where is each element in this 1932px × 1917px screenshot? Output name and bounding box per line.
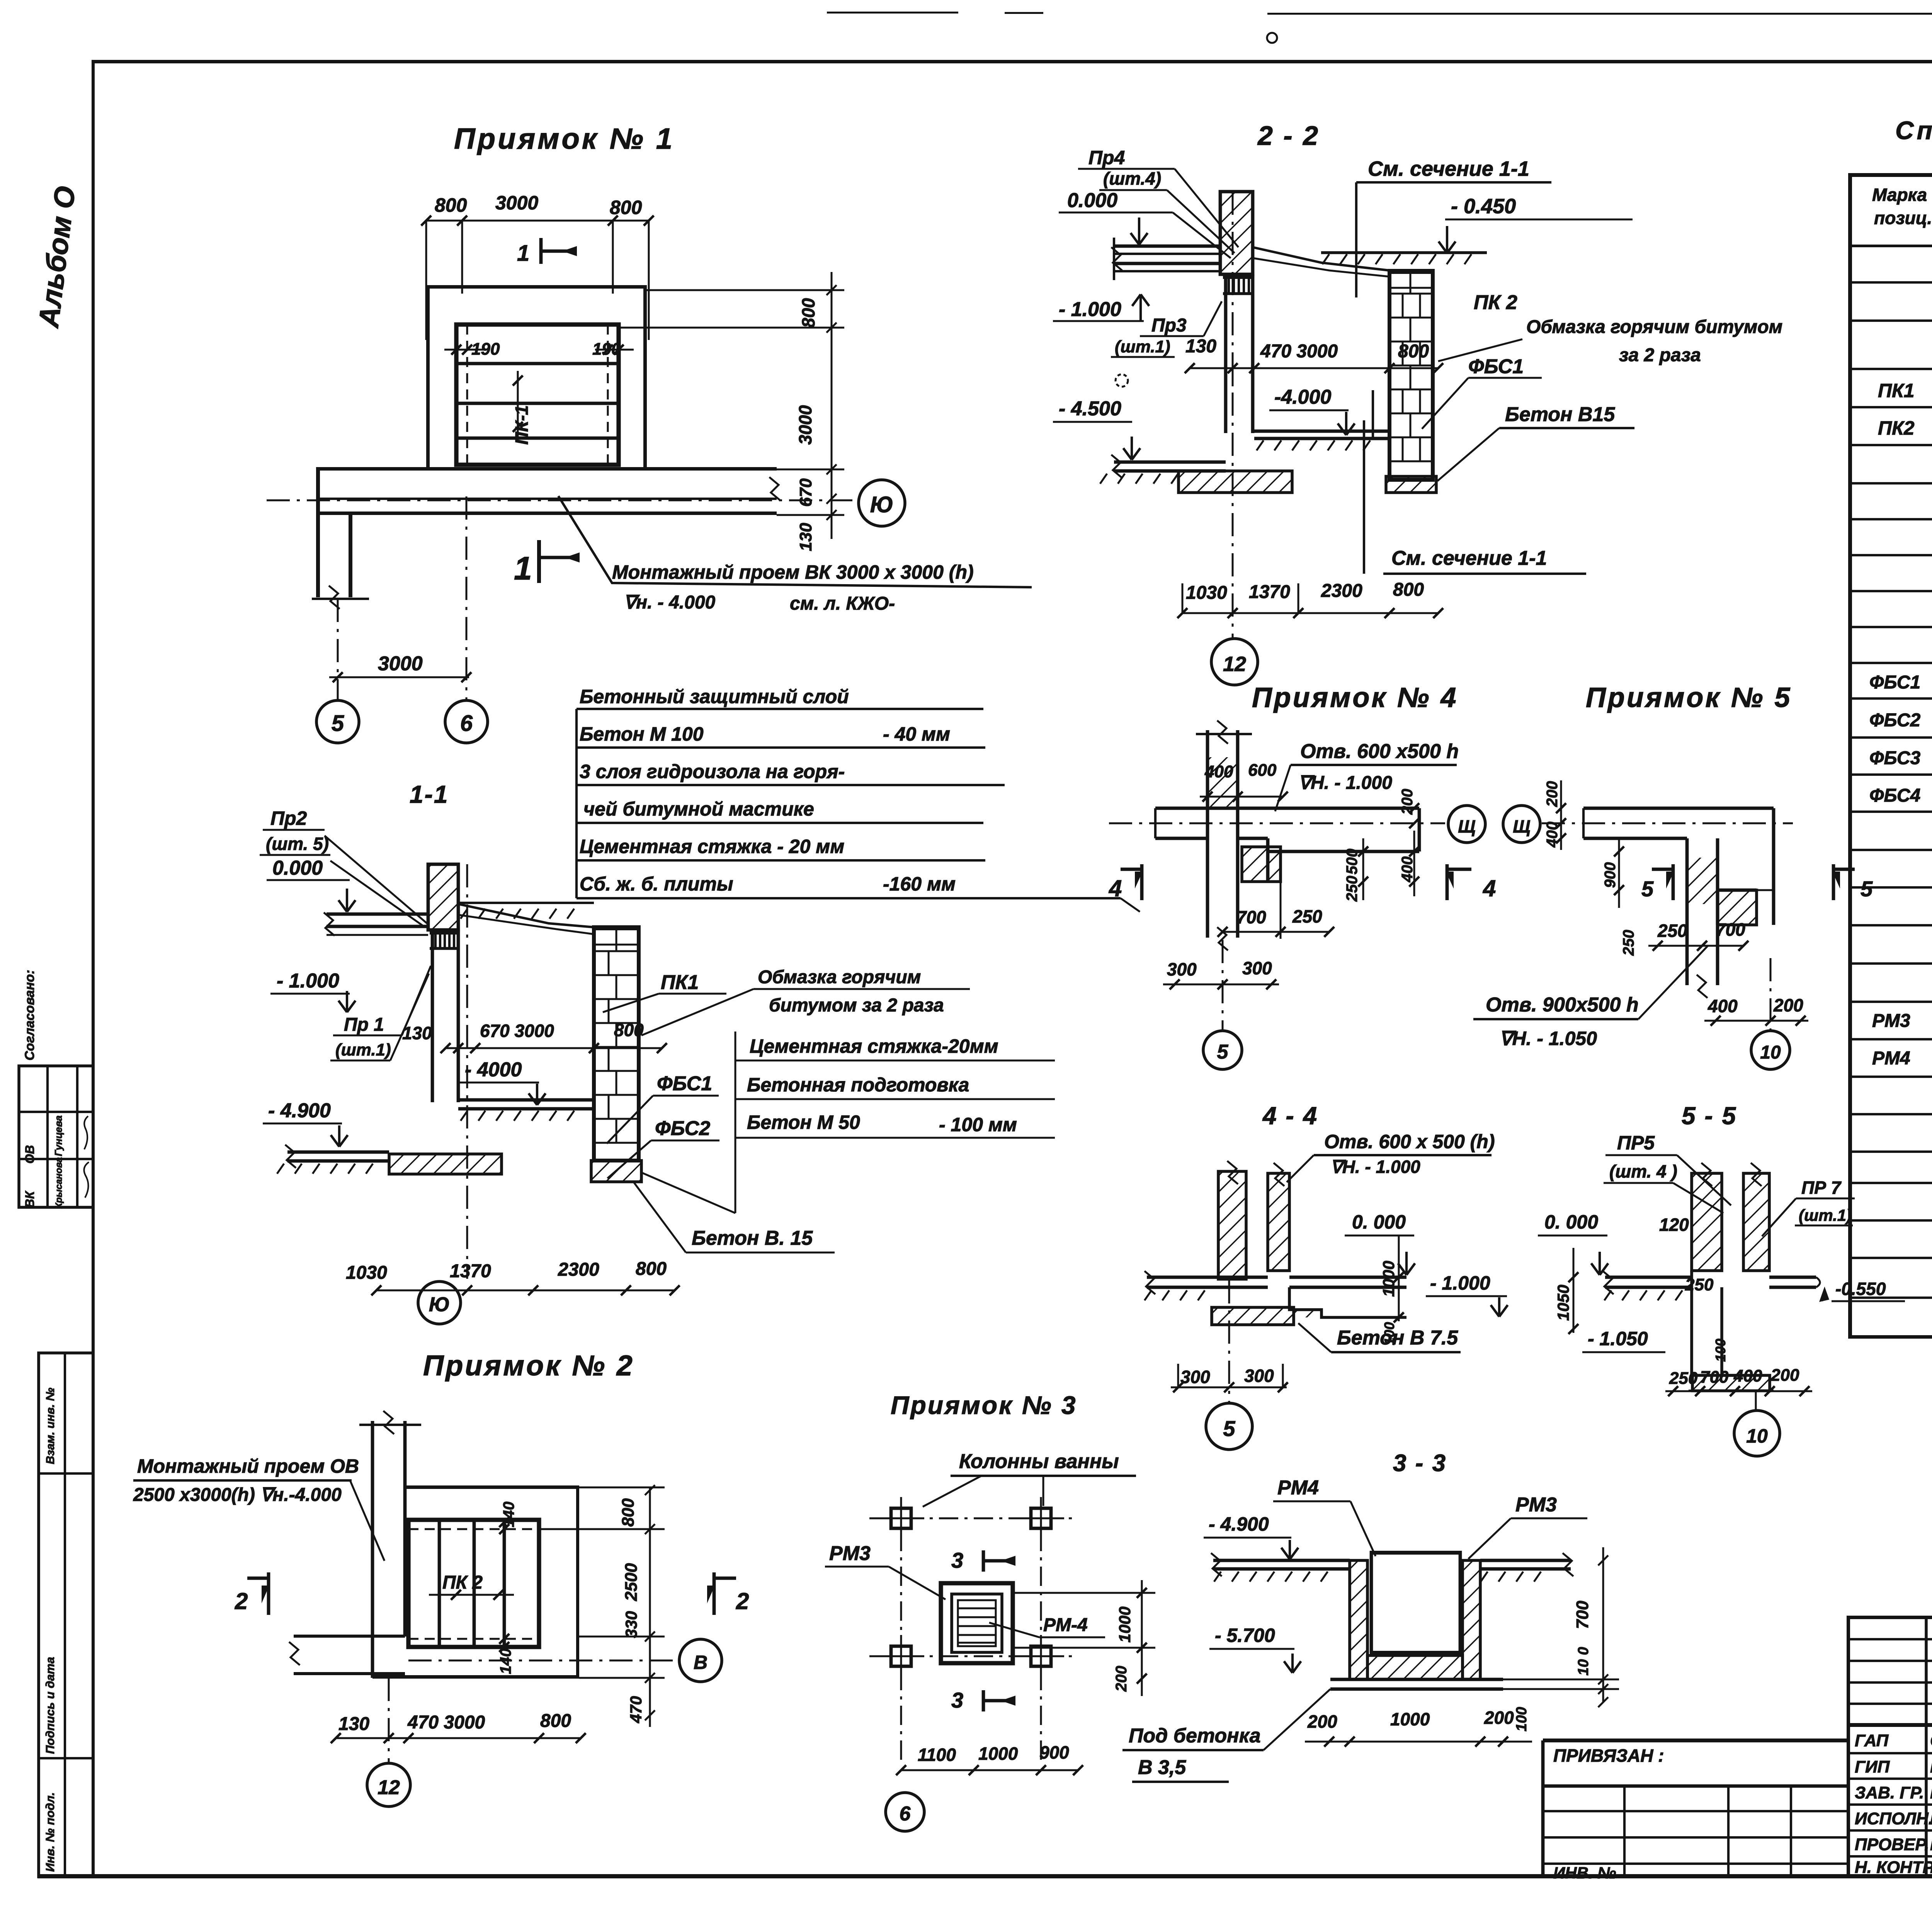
svg-text:-160 мм: -160 мм	[883, 873, 956, 895]
svg-text:ПР5: ПР5	[1617, 1132, 1655, 1154]
axis line and bottom dims 1-1	[466, 864, 468, 1279]
svg-text:∇Н. - 1.000: ∇Н. - 1.000	[1298, 773, 1392, 793]
svg-text:5: 5	[1641, 877, 1654, 901]
title block left small grid	[1850, 1638, 1932, 1640]
svg-text:(шт. 4 ): (шт. 4 )	[1609, 1161, 1677, 1181]
pit plan No4 opening edges	[1266, 838, 1270, 882]
svg-text:1: 1	[514, 550, 532, 586]
center axis line and bottom dims 2-2	[1232, 192, 1234, 639]
svg-text:10: 10	[1760, 1042, 1781, 1063]
axis line and circle 10	[1770, 958, 1772, 1030]
svg-text:Обмазка горячим: Обмазка горячим	[758, 967, 921, 987]
svg-text:300: 300	[1244, 1366, 1274, 1386]
svg-text:4 - 4: 4 - 4	[1262, 1102, 1318, 1130]
svg-text:- 1.000: - 1.000	[1059, 298, 1121, 321]
svg-text:ФБС2: ФБС2	[1869, 710, 1920, 731]
pit plan No4 horizontal wall	[1155, 807, 1419, 810]
centerlines No3	[869, 1518, 1078, 1519]
svg-text:ФБС1: ФБС1	[1869, 672, 1920, 693]
pit plan No4 vertical wall	[1206, 730, 1209, 938]
section 1-1 left hatched wall	[428, 864, 458, 930]
svg-text:РМ4: РМ4	[1872, 1048, 1910, 1069]
svg-text:3 - 3: 3 - 3	[1393, 1450, 1447, 1477]
svg-text:ФБС2: ФБС2	[655, 1117, 710, 1140]
legend underlines	[575, 709, 578, 898]
svg-text:5: 5	[1217, 1041, 1229, 1063]
section 5-5 floor slabs	[1605, 1276, 1692, 1279]
svg-text:0. 000: 0. 000	[1352, 1211, 1406, 1233]
svg-text:Н. КОНТР.: Н. КОНТР.	[1855, 1858, 1932, 1877]
svg-text:- 100 мм: - 100 мм	[939, 1114, 1017, 1135]
svg-text:250: 250	[1657, 921, 1687, 941]
svg-text:РОНДАРЕВА: РОНДАРЕВА	[1930, 1858, 1932, 1877]
svg-text:Отв. 900х500 h: Отв. 900х500 h	[1486, 994, 1639, 1016]
axis line circle 12 bottom	[388, 1678, 390, 1764]
svg-text:200: 200	[1484, 1708, 1514, 1728]
pit plan No2 outer rect	[405, 1485, 579, 1489]
leader and note Монтажный проем ВК3000х3000(h)	[558, 496, 1032, 587]
svg-text:2500 х3000(h) ∇н.-4.000: 2500 х3000(h) ∇н.-4.000	[133, 1485, 342, 1505]
svg-text:Отв. 600 х 500 (h): Отв. 600 х 500 (h)	[1324, 1131, 1495, 1152]
svg-text:ПР 7: ПР 7	[1801, 1178, 1842, 1198]
svg-text:- 5.700: - 5.700	[1215, 1625, 1275, 1646]
svg-text:ВК: ВК	[23, 1190, 37, 1208]
section 4-4 left wall hatched	[1218, 1171, 1246, 1279]
insert band Pr1	[430, 930, 458, 935]
svg-text:КАЛЕДИНА: КАЛЕДИНА	[1930, 1835, 1932, 1854]
svg-text:∇Н. - 1.050: ∇Н. - 1.050	[1499, 1028, 1597, 1049]
svg-text:5: 5	[332, 711, 344, 736]
svg-text:5: 5	[1861, 877, 1873, 901]
svg-text:битумом за 2 раза: битумом за 2 раза	[769, 995, 944, 1016]
svg-text:(шт.1): (шт.1)	[1115, 337, 1170, 356]
svg-text:Колонны ванны: Колонны ванны	[959, 1450, 1119, 1473]
axis line and circle 5 bottom No4	[1222, 940, 1224, 1030]
svg-text:Приямок № 2: Приямок № 2	[423, 1349, 634, 1382]
right dim chain 800 2500 330 470	[649, 1487, 651, 1727]
foundation pads 2-2	[1179, 471, 1292, 493]
svg-text:130: 130	[338, 1714, 369, 1734]
svg-text:3: 3	[951, 1548, 963, 1572]
pad and lower details 5-5	[1692, 1375, 1770, 1391]
svg-text:См. сечение 1-1: См. сечение 1-1	[1368, 157, 1529, 180]
svg-text:200: 200	[1399, 789, 1416, 815]
foundation pad 4-4	[1212, 1307, 1294, 1325]
svg-text:800: 800	[636, 1259, 667, 1279]
svg-text:ГАП: ГАП	[1855, 1731, 1889, 1750]
svg-text:250: 250	[1292, 906, 1322, 926]
svg-text:4: 4	[1109, 875, 1122, 901]
svg-text:5: 5	[1223, 1416, 1235, 1441]
svg-text:Отв. 600 х500 h: Отв. 600 х500 h	[1300, 740, 1459, 763]
svg-text:Бетон В15: Бетон В15	[1505, 403, 1615, 426]
svg-text:400: 400	[1204, 762, 1233, 781]
svg-text:РМ3: РМ3	[829, 1542, 871, 1565]
pit plan No5 Щ circle left	[1503, 806, 1540, 843]
svg-text:3: 3	[951, 1688, 963, 1712]
svg-text:10: 10	[1746, 1425, 1768, 1447]
svg-text:Под бетонка: Под бетонка	[1129, 1725, 1261, 1747]
pit plan No2 band to left	[294, 1635, 405, 1638]
svg-text:900: 900	[1602, 862, 1619, 888]
svg-text:Бетон М 50: Бетон М 50	[747, 1111, 860, 1133]
axis circle 6 bottom No3	[886, 1793, 924, 1831]
svg-text:См. сечение 1-1: См. сечение 1-1	[1391, 547, 1547, 569]
svg-text:ПК1: ПК1	[661, 971, 699, 994]
band axis centerline with Ю circle	[267, 500, 857, 501]
svg-text:-0.550: -0.550	[1835, 1279, 1886, 1299]
foundation pads 1-1	[389, 1154, 502, 1174]
svg-text:Марка: Марка	[1872, 185, 1927, 205]
svg-text:700: 700	[1716, 919, 1745, 940]
svg-text:700: 700	[1700, 1368, 1729, 1387]
svg-text:КИРИЕНКОВА: КИРИЕНКОВА	[1930, 1809, 1932, 1828]
pit plan No4 hatched corner	[1242, 847, 1281, 882]
svg-text:ИСПОЛН.: ИСПОЛН.	[1855, 1809, 1932, 1828]
svg-text:(шт. 5): (шт. 5)	[266, 834, 329, 854]
svg-text:2500: 2500	[622, 1563, 641, 1601]
svg-text:МОРОЗОВА: МОРОЗОВА	[1930, 1783, 1932, 1802]
svg-text:300: 300	[1242, 958, 1272, 978]
svg-text:250: 250	[1344, 876, 1361, 902]
svg-text:3000: 3000	[378, 653, 423, 675]
svg-text:1050: 1050	[1554, 1285, 1572, 1320]
svg-text:Щ: Щ	[1513, 816, 1530, 836]
pit No2 slab joints vertical	[438, 1520, 441, 1647]
svg-text:500: 500	[1344, 849, 1361, 875]
pit plan No5 vertical wall	[1685, 838, 1689, 985]
svg-text:800: 800	[435, 194, 467, 216]
svg-text:400: 400	[1399, 857, 1416, 883]
svg-text:ФБС4: ФБС4	[1869, 785, 1920, 806]
specification table grid	[1848, 173, 1932, 177]
svg-text:3000: 3000	[495, 192, 538, 214]
3-3 pit walls hatched	[1350, 1560, 1367, 1679]
svg-text:Согласовано:: Согласовано:	[22, 970, 37, 1060]
svg-text:2: 2	[235, 1588, 248, 1614]
svg-text:ИНВ. №: ИНВ. №	[1553, 1864, 1616, 1882]
svg-text:Бетонная подготовка: Бетонная подготовка	[747, 1074, 969, 1096]
svg-text:5 - 5: 5 - 5	[1682, 1102, 1737, 1130]
svg-text:РМ3: РМ3	[1515, 1494, 1557, 1516]
svg-text:Приямок № 5: Приямок № 5	[1586, 682, 1792, 713]
ledge and pit floor 4-4	[1289, 1287, 1406, 1317]
sloping backfill lines	[1253, 247, 1389, 270]
svg-text:100: 100	[1514, 1707, 1530, 1731]
pit slab band under top (Pr3 inserts)	[1223, 274, 1254, 279]
svg-text:470 3000: 470 3000	[407, 1712, 485, 1733]
svg-text:1370: 1370	[1249, 582, 1290, 602]
svg-text:ЗАВ. ГР.: ЗАВ. ГР.	[1855, 1783, 1924, 1802]
svg-text:2300: 2300	[558, 1259, 599, 1280]
section 5-5 walls hatched	[1692, 1173, 1722, 1271]
svg-text:ФБС3: ФБС3	[1869, 748, 1920, 768]
svg-text:800: 800	[540, 1711, 571, 1731]
svg-text:800: 800	[1398, 341, 1429, 362]
svg-text:Цементная стяжка-20мм: Цементная стяжка-20мм	[750, 1035, 998, 1057]
svg-text:10 0: 10 0	[1575, 1647, 1592, 1676]
svg-text:ПК2: ПК2	[1878, 417, 1915, 439]
svg-text:Инв. № подл.: Инв. № подл.	[43, 1792, 57, 1872]
svg-text:ОВ: ОВ	[23, 1145, 37, 1164]
svg-text:Монтажный проем ОВ: Монтажный проем ОВ	[137, 1455, 359, 1477]
axis circle 6	[445, 700, 488, 743]
svg-text:- 1.000: - 1.000	[1430, 1272, 1490, 1294]
svg-text:Щ: Щ	[1458, 816, 1475, 836]
svg-text:-4.000: -4.000	[1274, 386, 1332, 408]
axis circle 12	[1211, 639, 1258, 685]
svg-text:400: 400	[1733, 1366, 1762, 1385]
right brick wall 1-1	[594, 927, 639, 1161]
svg-text:(шт.1): (шт.1)	[335, 1040, 391, 1059]
svg-text:120: 120	[1659, 1215, 1689, 1235]
svg-text:200: 200	[1307, 1711, 1337, 1732]
svg-text:Ю: Ю	[870, 492, 893, 517]
svg-text:Гунцева: Гунцева	[53, 1115, 64, 1156]
svg-text:ПРИВЯЗАН :: ПРИВЯЗАН :	[1553, 1745, 1664, 1766]
floor slab left 0.000	[1114, 245, 1220, 248]
svg-text:В 3,5: В 3,5	[1138, 1756, 1186, 1779]
svg-text:800: 800	[798, 298, 818, 328]
svg-text:200: 200	[1770, 1366, 1799, 1385]
svg-text:130: 130	[1185, 336, 1216, 357]
svg-text:КАЛЕДИНА: КАЛЕДИНА	[1930, 1757, 1932, 1776]
svg-text:300: 300	[1167, 959, 1197, 979]
svg-text:1100: 1100	[918, 1745, 956, 1765]
svg-text:6: 6	[900, 1803, 911, 1825]
svg-text:800: 800	[614, 1020, 644, 1040]
axis circle Ю top of Приямок 2	[418, 1281, 461, 1324]
svg-text:1: 1	[517, 241, 529, 266]
right dim chain 700 100 100 3-3	[1602, 1547, 1604, 1702]
leaders Pr2 to wall	[325, 836, 427, 923]
svg-text:400: 400	[1708, 996, 1738, 1016]
pit plan No2 upper wall lines	[371, 1421, 374, 1678]
dim 1000 200 right of РМ4 frame	[1013, 1592, 1155, 1594]
svg-text:Спецификация элементов при: Спецификация элементов приямков N1 ÷ N5	[1895, 116, 1932, 144]
left lower slab -4.500	[1114, 461, 1226, 464]
svg-text:ПК-1: ПК-1	[512, 405, 532, 445]
svg-text:2: 2	[736, 1588, 749, 1614]
axis circle 5	[316, 700, 359, 743]
svg-text:чей битумной мастике: чей битумной мастике	[583, 798, 814, 820]
svg-text:1370: 1370	[450, 1261, 491, 1281]
leader lines Pr4 to wall	[1175, 169, 1238, 247]
pit floor slab 1-1	[458, 1098, 594, 1102]
svg-text:ГИП: ГИП	[1855, 1757, 1890, 1776]
svg-text:3 слоя гидроизола на горя-: 3 слоя гидроизола на горя-	[580, 761, 845, 782]
svg-text:4: 4	[1483, 875, 1496, 901]
concrete topping on brick wall	[1389, 271, 1433, 274]
svg-text:- 4000: - 4000	[465, 1059, 522, 1081]
svg-text:- 4.900: - 4.900	[268, 1100, 331, 1122]
svg-text:- 40 мм: - 40 мм	[883, 723, 950, 745]
column squares No3	[891, 1508, 911, 1528]
svg-text:200: 200	[1544, 781, 1561, 807]
svg-text:Монтажный проем ВК 3000 х 300: Монтажный проем ВК 3000 х 3000 (h)	[612, 561, 974, 583]
ledge pit floor 5-5	[1722, 1287, 1743, 1375]
svg-text:ФБС1: ФБС1	[657, 1072, 712, 1095]
svg-text:900: 900	[1039, 1742, 1069, 1762]
svg-text:Бетон В. 15: Бетон В. 15	[692, 1227, 813, 1249]
svg-text:0. 000: 0. 000	[1544, 1211, 1598, 1233]
floor slab left 1-1	[327, 913, 428, 916]
svg-text:Ю: Ю	[429, 1293, 450, 1316]
svg-text:250: 250	[1620, 930, 1637, 956]
svg-text:0.000: 0.000	[272, 857, 323, 879]
svg-text:- 4.500: - 4.500	[1059, 398, 1121, 420]
section 4-4 middle wall hatched	[1268, 1173, 1289, 1271]
title block outer box	[1847, 1616, 1932, 1619]
svg-text:ПК 2: ПК 2	[442, 1572, 483, 1593]
svg-text:100: 100	[1713, 1339, 1728, 1362]
svg-text:- 4.900: - 4.900	[1209, 1513, 1269, 1535]
svg-text:за 2 раза: за 2 раза	[1619, 345, 1701, 365]
sheet border frame	[92, 60, 95, 1878]
axis circle 5 bottom 4-4	[1228, 1280, 1230, 1403]
svg-text:Крысанова: Крысанова	[54, 1157, 64, 1208]
svg-text:130: 130	[796, 523, 815, 551]
svg-text:РМ-4: РМ-4	[1043, 1615, 1088, 1635]
svg-text:6: 6	[460, 711, 473, 736]
РМ4 frame plan center	[941, 1583, 1013, 1663]
svg-text:см. л. КЖО-: см. л. КЖО-	[790, 593, 895, 614]
svg-text:3000: 3000	[795, 405, 815, 445]
svg-text:- 1.050: - 1.050	[1588, 1328, 1648, 1349]
svg-text:700: 700	[1236, 907, 1266, 927]
svg-text:РМ3: РМ3	[1872, 1011, 1910, 1031]
svg-text:130: 130	[402, 1023, 432, 1043]
left margin lower cells Vzam/Podpis/Inv	[39, 1353, 93, 1877]
svg-text:800: 800	[619, 1498, 638, 1527]
svg-text:1000: 1000	[978, 1744, 1018, 1764]
svg-text:470: 470	[627, 1696, 645, 1723]
svg-text:800: 800	[1393, 580, 1424, 600]
svg-text:1-1: 1-1	[410, 780, 449, 808]
ground line right with hatch	[1321, 251, 1487, 254]
svg-text:Взам. инв. №: Взам. инв. №	[44, 1388, 57, 1464]
svg-text:- 1.000: - 1.000	[277, 970, 339, 992]
3-3 under-slab plate	[1330, 1678, 1503, 1681]
svg-text:Обмазка горячим битумом: Обмазка горячим битумом	[1526, 317, 1782, 337]
svg-text:ПК1: ПК1	[1878, 380, 1915, 401]
svg-text:200: 200	[1113, 1666, 1130, 1692]
svg-text:700: 700	[1573, 1601, 1592, 1629]
right dimension chain 800 3000 670 130	[831, 272, 833, 539]
svg-text:Бетон М 100: Бетон М 100	[580, 723, 704, 745]
svg-text:0.000: 0.000	[1067, 189, 1117, 212]
svg-text:ПК 2: ПК 2	[1474, 291, 1517, 314]
svg-text:Пр2: Пр2	[270, 807, 307, 829]
svg-text:2300: 2300	[1321, 581, 1362, 601]
svg-text:ПРОВЕР.: ПРОВЕР.	[1855, 1835, 1929, 1854]
pit plan No5 horizontal wall	[1583, 807, 1774, 810]
3-3 pit box	[1371, 1551, 1460, 1555]
3-3 right ground slab	[1480, 1559, 1571, 1562]
svg-text:470 3000: 470 3000	[1260, 341, 1338, 362]
svg-text:ФБС1: ФБС1	[1468, 355, 1524, 378]
svg-text:12: 12	[378, 1776, 400, 1799]
left margin signature block	[19, 1066, 93, 1207]
3-3 bottom slab hatched	[1367, 1655, 1463, 1679]
svg-text:670: 670	[796, 478, 815, 507]
pit plan No2 inner pit	[408, 1520, 539, 1647]
section 2-2 left wall hatched column	[1220, 192, 1253, 274]
svg-text:1030: 1030	[1186, 583, 1227, 603]
pit plan No5 opening	[1718, 889, 1757, 892]
pit plan No1 slab joints	[456, 362, 619, 365]
axis centerline and Щ circle right	[1109, 823, 1445, 824]
svg-text:∇н. - 4.000: ∇н. - 4.000	[624, 592, 716, 613]
svg-text:Пр 1: Пр 1	[344, 1015, 384, 1035]
svg-text:∇Н. - 1.000: ∇Н. - 1.000	[1330, 1157, 1420, 1177]
svg-text:Приямок № 1: Приямок № 1	[454, 122, 675, 155]
axis lines to circles 5 and 6	[337, 599, 339, 700]
right brick wall of pit 2-2	[1389, 271, 1433, 480]
svg-text:РМ4: РМ4	[1277, 1477, 1319, 1499]
svg-text:Цементная стяжка - 20 мм: Цементная стяжка - 20 мм	[580, 836, 844, 857]
pit plan No1 outer wall rectangle	[426, 285, 647, 289]
svg-text:(шт.1): (шт.1)	[1799, 1206, 1852, 1224]
svg-text:300: 300	[1180, 1367, 1210, 1387]
pit plan No1 inner pit	[456, 325, 619, 465]
centerline and В axis circle	[408, 1660, 679, 1662]
sloping backfill to right wall	[458, 904, 594, 927]
svg-text:(шт.4): (шт.4)	[1103, 168, 1161, 189]
svg-text:Сб. ж. б. плиты: Сб. ж. б. плиты	[580, 873, 733, 895]
privyazan box	[1543, 1739, 1849, 1742]
wall band below pit plan No1	[318, 467, 777, 471]
svg-text:позиц.: позиц.	[1874, 208, 1932, 228]
svg-text:В: В	[694, 1652, 707, 1673]
top paper edge artifacts	[827, 12, 958, 14]
svg-text:1000: 1000	[1390, 1709, 1430, 1729]
svg-text:250: 250	[1685, 1275, 1714, 1294]
svg-text:1000: 1000	[1116, 1606, 1134, 1642]
svg-text:- 0.450: - 0.450	[1451, 195, 1516, 218]
svg-text:Приямок № 3: Приямок № 3	[891, 1391, 1077, 1419]
lower slab -4.900 left	[287, 1151, 389, 1154]
svg-text:Бетонный защитный слой: Бетонный защитный слой	[580, 686, 849, 707]
svg-text:800: 800	[610, 197, 642, 218]
svg-text:Приямок № 4: Приямок № 4	[1252, 682, 1458, 713]
svg-text:СМИРНОВ: СМИРНОВ	[1930, 1731, 1932, 1750]
svg-text:2 - 2: 2 - 2	[1257, 121, 1320, 151]
svg-text:Подпись и дата: Подпись и дата	[43, 1657, 57, 1754]
svg-text:Бетон В 7.5: Бетон В 7.5	[1337, 1327, 1458, 1349]
svg-text:1000: 1000	[1379, 1261, 1398, 1297]
svg-text:Пр3: Пр3	[1151, 315, 1187, 336]
3-3 left ground slab	[1213, 1559, 1350, 1562]
svg-text:250: 250	[1669, 1369, 1698, 1388]
axis circle 10 bottom 5-5	[1755, 1391, 1757, 1411]
svg-text:330: 330	[622, 1611, 640, 1638]
svg-text:670 3000: 670 3000	[480, 1021, 554, 1041]
section 4-4 floor slabs	[1147, 1276, 1268, 1279]
svg-text:200: 200	[1773, 995, 1803, 1015]
svg-text:Пр4: Пр4	[1088, 147, 1125, 168]
svg-text:1030: 1030	[346, 1263, 387, 1283]
svg-text:600: 600	[1248, 761, 1277, 780]
svg-text:12: 12	[1223, 653, 1246, 676]
pit floor slab 2-2	[1254, 430, 1389, 433]
